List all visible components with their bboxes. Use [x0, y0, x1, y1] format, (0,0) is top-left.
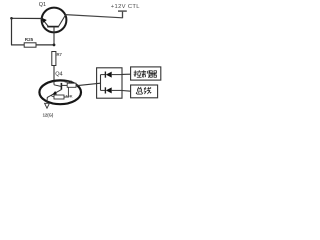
svg-text:12(G): 12(G) [43, 112, 54, 117]
svg-text:R25: R25 [25, 37, 34, 42]
svg-text:Q4: Q4 [55, 72, 62, 78]
svg-text:+12V CTL: +12V CTL [111, 4, 140, 10]
svg-text:4K7: 4K7 [65, 79, 72, 84]
svg-text:R7: R7 [57, 52, 63, 57]
svg-text:10K: 10K [65, 94, 72, 99]
svg-text:Q1: Q1 [39, 2, 46, 8]
